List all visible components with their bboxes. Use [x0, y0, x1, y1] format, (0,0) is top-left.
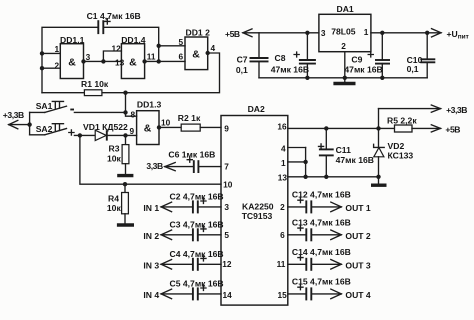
svg-text:C6 1мк 16В: C6 1мк 16В	[168, 150, 215, 160]
svg-text:DD1.1: DD1.1	[60, 35, 85, 45]
output row OUT3 with capacitor C14	[288, 247, 371, 271]
svg-text:2: 2	[280, 202, 285, 212]
svg-text:DA1: DA1	[337, 4, 354, 14]
capacitor C10	[407, 33, 436, 78]
svg-text:13: 13	[115, 57, 125, 67]
ground R4	[117, 223, 134, 226]
capacitor C7	[236, 33, 269, 78]
svg-text:6: 6	[179, 51, 184, 61]
capacitor C1	[87, 11, 141, 34]
svg-text:C1 4,7мк 16В: C1 4,7мк 16В	[87, 11, 141, 21]
svg-text:&: &	[144, 123, 152, 135]
svg-text:9: 9	[130, 126, 135, 136]
switch SA1	[30, 101, 128, 115]
svg-text:C3 4,7мк 16В: C3 4,7мк 16В	[170, 220, 224, 230]
svg-text:15: 15	[278, 290, 288, 300]
svg-text:10: 10	[223, 179, 233, 189]
svg-text:IN 3: IN 3	[143, 260, 159, 270]
svg-text:7: 7	[224, 162, 229, 172]
svg-text:IN 4: IN 4	[143, 290, 159, 300]
svg-text:47мк 16В: 47мк 16В	[336, 155, 374, 165]
zener diode VD2	[374, 128, 414, 184]
svg-text:R1 10к: R1 10к	[81, 79, 109, 89]
output row OUT1 with capacitor C12	[288, 189, 371, 213]
svg-text:1: 1	[281, 158, 286, 168]
svg-text:5: 5	[179, 37, 184, 47]
svg-text:11: 11	[277, 259, 286, 269]
svg-text:OUT 4: OUT 4	[345, 290, 371, 300]
svg-text:1: 1	[364, 27, 369, 37]
svg-text:5: 5	[224, 230, 229, 240]
svg-text:8: 8	[131, 110, 136, 120]
DA2 left pin numbers	[222, 123, 232, 299]
svg-text:14: 14	[223, 290, 233, 300]
svg-text:16: 16	[277, 121, 287, 131]
svg-text:+3,3В: +3,3В	[3, 110, 24, 120]
svg-text:78L05: 78L05	[331, 27, 356, 37]
wire DD1.2 pin4 feedback	[42, 51, 220, 93]
wire DD1.1 inputs tied	[40, 51, 61, 70]
wire DA1 bottom rail	[259, 76, 427, 80]
ground VD2	[371, 183, 387, 186]
svg-text:R5 2,2к: R5 2,2к	[387, 116, 417, 126]
resistor R1	[81, 79, 128, 95]
wire DA2 pin16 3.3V node	[288, 126, 395, 130]
svg-text:DD1.4: DD1.4	[121, 35, 146, 45]
svg-text:C5 4,7мк 16В: C5 4,7мк 16В	[170, 279, 224, 289]
svg-text:C2 4,7мк 16В: C2 4,7мк 16В	[170, 192, 224, 202]
wire DA2 pin13 ground line	[288, 175, 381, 179]
svg-text:13: 13	[278, 173, 288, 183]
wire SA2 node down to pin10 line	[80, 135, 221, 186]
svg-text:10: 10	[161, 117, 171, 127]
node +5B left arrow	[225, 29, 319, 39]
svg-text:C7: C7	[237, 54, 248, 64]
resistor R2	[178, 113, 221, 131]
svg-text:C9: C9	[351, 54, 362, 64]
svg-text:0,1: 0,1	[407, 64, 419, 74]
svg-text:10к: 10к	[107, 154, 122, 164]
wire DA2 pins 4 and 1 tied	[288, 148, 308, 180]
svg-text:КС133: КС133	[388, 150, 414, 160]
svg-text:TC9153: TC9153	[242, 211, 273, 221]
input row IN4 with capacitor C5	[143, 279, 223, 301]
IC DA2 KA2250 TC9153	[221, 104, 288, 305]
svg-text:11: 11	[147, 51, 156, 61]
svg-text:4: 4	[281, 144, 286, 154]
wire DD1.4 pin11 to DD1.2 inputs	[142, 44, 185, 64]
svg-text:&: &	[129, 56, 137, 68]
output row OUT4 with capacitor C15	[288, 276, 371, 300]
svg-text:3,3В: 3,3В	[146, 161, 163, 171]
svg-text:C8: C8	[275, 53, 286, 63]
capacitor C9	[344, 33, 390, 78]
svg-text:OUT 1: OUT 1	[345, 203, 371, 213]
svg-text:&: &	[68, 56, 76, 68]
diode VD1	[83, 122, 137, 141]
svg-text:C11: C11	[336, 145, 352, 155]
resistor R5	[387, 116, 417, 132]
svg-text:KA2250: KA2250	[242, 202, 274, 212]
svg-text:R4: R4	[108, 193, 119, 203]
logic gate DD1.2	[179, 27, 216, 69]
svg-text:VD1 КД522: VD1 КД522	[83, 122, 128, 132]
wire R1 to DD1.3 pin8	[126, 93, 137, 117]
resistor R3	[107, 135, 129, 174]
input row IN1 with capacitor C2	[143, 192, 223, 214]
svg-text:R2 1к: R2 1к	[178, 113, 201, 123]
input row IN3 with capacitor C4	[143, 249, 223, 271]
node 3,3B arrow with capacitor C6 to pin7	[146, 150, 221, 173]
DA2 right pin numbers	[277, 121, 288, 299]
svg-text:DD1.3: DD1.3	[137, 100, 162, 110]
svg-text:SA1: SA1	[36, 101, 53, 111]
output row OUT2 with capacitor C13	[288, 217, 371, 241]
IC DA1 78L05	[319, 4, 371, 52]
capacitor C8	[271, 33, 316, 78]
svg-text:10к: 10к	[107, 203, 122, 213]
svg-text:OUT 3: OUT 3	[345, 260, 371, 270]
svg-text:DD1 2: DD1 2	[186, 27, 211, 37]
node +5B right arrow	[412, 124, 460, 134]
svg-text:DA2: DA2	[248, 104, 265, 114]
svg-text:0,1: 0,1	[236, 65, 248, 75]
svg-text:3: 3	[86, 52, 91, 62]
logic gate DD1.4	[112, 35, 156, 79]
switch SA2	[30, 124, 96, 138]
svg-text:47мк 16В: 47мк 16В	[271, 64, 309, 74]
svg-text:+5В: +5В	[445, 124, 460, 134]
svg-text:C4 4,7мк 16В: C4 4,7мк 16В	[170, 249, 224, 259]
svg-text:R3: R3	[109, 144, 120, 154]
svg-text:IN 1: IN 1	[143, 203, 159, 213]
node +3,3B left arrow	[3, 110, 32, 135]
ground R3	[117, 174, 133, 177]
logic gate DD1.3	[130, 100, 171, 145]
svg-text:1: 1	[55, 44, 60, 54]
svg-text:OUT 2: OUT 2	[345, 231, 371, 241]
svg-text:3: 3	[321, 28, 326, 38]
svg-text:12: 12	[222, 259, 232, 269]
svg-text:12: 12	[112, 44, 122, 54]
svg-text:2: 2	[341, 41, 346, 51]
svg-text:+3,3В: +3,3В	[446, 105, 467, 115]
wire DD1.3 out	[157, 125, 181, 129]
node +3,3B right arrow	[379, 105, 468, 129]
svg-text:9: 9	[224, 123, 229, 133]
svg-text:+5В: +5В	[225, 29, 240, 39]
svg-text:3: 3	[224, 202, 229, 212]
wire DA1 output rail	[371, 29, 469, 41]
resistor R4	[107, 184, 128, 223]
svg-text:4: 4	[211, 43, 216, 53]
wire top feedback C1 rail	[42, 27, 159, 92]
svg-text:47мк 16В: 47мк 16В	[344, 64, 382, 74]
wire DA1 pin2 to ground	[344, 52, 346, 82]
svg-text:IN 2: IN 2	[143, 231, 159, 241]
ground DA1	[333, 82, 355, 85]
wire DD1.1 pin3 to DD1.4 inputs	[81, 51, 121, 64]
svg-text:6: 6	[280, 230, 285, 240]
capacitor C11	[319, 128, 374, 176]
svg-text:&: &	[192, 48, 200, 60]
input row IN2 with capacitor C3	[143, 220, 223, 242]
logic gate DD1.1	[55, 35, 91, 79]
svg-text:2: 2	[55, 61, 60, 71]
svg-text:SA2: SA2	[36, 124, 53, 134]
